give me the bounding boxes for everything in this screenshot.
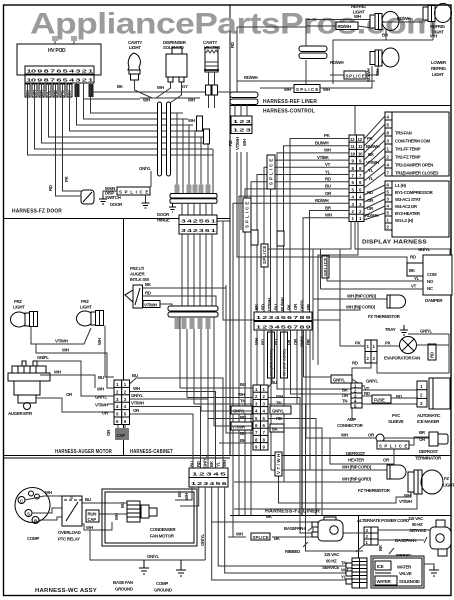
svg-text:WH: WH xyxy=(97,387,104,392)
frz light wire WH xyxy=(36,344,114,388)
refrig light 2 label xyxy=(430,24,446,35)
amp connector labels xyxy=(342,386,370,404)
splice defrost xyxy=(377,441,409,449)
control wire VT xyxy=(264,162,349,312)
auger connector left labels xyxy=(95,375,114,416)
wire drop BK to hinge bundle xyxy=(188,125,190,185)
refrig light 2 bulb xyxy=(423,4,452,23)
svg-text:1 2 3 4 5 6 7 8 9: 1 2 3 4 5 6 7 8 9 xyxy=(256,325,312,330)
wire rip cord 3 xyxy=(271,465,387,471)
svg-text:RD: RD xyxy=(145,291,151,296)
comp wires to overload xyxy=(25,490,62,520)
svg-text:COMP: COMP xyxy=(156,581,168,586)
svg-text:AUGER: AUGER xyxy=(130,272,145,277)
wire GN/YL boxed evap xyxy=(304,375,379,386)
splice vertical bus 6 xyxy=(322,256,329,278)
svg-text:COMP: COMP xyxy=(27,536,39,541)
lower refrig light bulb xyxy=(370,48,399,67)
ribbed label left xyxy=(285,542,308,554)
wire turn label BU/WH xyxy=(204,129,210,144)
wire WH to light1 xyxy=(306,14,370,20)
svg-text:WH: WH xyxy=(157,85,164,90)
svg-text:SPLICE: SPLICE xyxy=(253,535,269,540)
svg-text:AUTOMATIC: AUTOMATIC xyxy=(417,413,441,418)
svg-text:TN: TN xyxy=(240,399,245,404)
svg-text:L1 (H): L1 (H) xyxy=(395,183,406,188)
svg-text:TN: TN xyxy=(276,401,281,406)
svg-text:LIGHT: LIGHT xyxy=(432,72,444,77)
svg-text:WH: WH xyxy=(325,213,332,218)
svg-text:VT/WH: VT/WH xyxy=(95,403,108,408)
svg-text:VT/WH: VT/WH xyxy=(232,425,245,430)
svg-text:VT/BK: VT/BK xyxy=(317,155,330,160)
svg-text:VT/WH: VT/WH xyxy=(366,160,379,165)
fz thermistor capsule 1 xyxy=(387,295,406,308)
lower cable bundle bars xyxy=(168,306,218,317)
svg-text:LIGHT: LIGHT xyxy=(443,483,454,488)
frz light 2 wire WH vertical xyxy=(97,326,114,378)
svg-text:GY: GY xyxy=(182,84,188,89)
svg-text:WH: WH xyxy=(188,118,195,123)
svg-text:S: S xyxy=(27,512,30,517)
svg-text:WH (RIP CORD): WH (RIP CORD) xyxy=(346,305,376,310)
control wire BU xyxy=(245,184,349,515)
svg-text:HARNESS-FZ LINER: HARNESS-FZ LINER xyxy=(265,509,320,515)
svg-text:WH: WH xyxy=(184,493,189,500)
svg-text:WH: WH xyxy=(222,460,227,467)
defrost heater box xyxy=(330,438,394,464)
svg-text:LIGHT: LIGHT xyxy=(129,45,141,50)
svg-text:SOLENOID: SOLENOID xyxy=(399,579,420,584)
auger motor xyxy=(8,361,50,410)
svg-text:REFRIG: REFRIG xyxy=(430,24,446,29)
dual connector left wires xyxy=(180,285,253,443)
GN/YL vertical wire comp xyxy=(200,533,205,546)
ground door 2 xyxy=(142,195,150,208)
condenser fan motor xyxy=(114,501,176,539)
svg-text:1 2 3: 1 2 3 xyxy=(233,119,252,124)
power plug left xyxy=(312,517,343,541)
svg-text:115 VAC: 115 VAC xyxy=(324,552,340,557)
svg-text:BU/WH: BU/WH xyxy=(315,141,329,146)
wire long vertical dark xyxy=(301,330,303,515)
svg-text:WH: WH xyxy=(188,98,195,103)
svg-text:DAMPER: DAMPER xyxy=(425,298,443,303)
main disp switch xyxy=(81,186,121,204)
splice vertical bus 2 xyxy=(267,155,275,189)
HV POD pin 4 wire GY xyxy=(70,83,199,131)
tray ground xyxy=(385,325,449,373)
power cord wire BK xyxy=(266,514,273,519)
damper wires YL VT xyxy=(321,249,424,289)
frz light 2 bulb xyxy=(77,311,104,327)
svg-text:RD: RD xyxy=(352,361,358,366)
svg-text:BU: BU xyxy=(98,375,104,380)
svg-text:TN: TN xyxy=(342,399,347,404)
svg-text:HV POD: HV POD xyxy=(48,48,66,54)
svg-text:PTC RELAY: PTC RELAY xyxy=(58,537,80,542)
svg-text:VALVE: VALVE xyxy=(399,571,412,576)
svg-text:VT: VT xyxy=(411,284,417,289)
svg-text:90 HZ: 90 HZ xyxy=(412,522,423,527)
lower cable bundle wires down xyxy=(180,317,214,426)
svg-text:YL: YL xyxy=(368,168,374,173)
svg-text:BASEPAN-I: BASEPAN-I xyxy=(284,526,305,531)
condenser fan wires xyxy=(106,491,189,530)
door hinge connector row 2 xyxy=(179,225,217,235)
svg-text:REFRIG: REFRIG xyxy=(351,4,367,9)
auger motor wire OR xyxy=(36,392,114,412)
wire RD/WH boxed top xyxy=(306,22,372,30)
cavity light bulb xyxy=(128,53,140,80)
cavity heater wires BU/WH BU xyxy=(206,72,218,108)
wire rip cord 4 xyxy=(234,477,391,494)
defrost heater wire WH OR xyxy=(330,433,376,439)
svg-text:WH (RIP CORD): WH (RIP CORD) xyxy=(342,477,372,482)
svg-text:HARNESS-REF LINER: HARNESS-REF LINER xyxy=(263,99,317,105)
svg-text:VT/WH: VT/WH xyxy=(144,303,157,308)
svg-text:BU: BU xyxy=(132,373,138,378)
fz light wires xyxy=(234,476,417,509)
control wire BR xyxy=(310,205,350,312)
svg-text:WH: WH xyxy=(238,392,245,397)
svg-text:GN/YL: GN/YL xyxy=(366,379,379,384)
svg-text:WATER: WATER xyxy=(377,579,392,584)
door ground small xyxy=(169,202,176,212)
alternate power cord label xyxy=(357,516,426,533)
water valve box xyxy=(371,556,424,588)
wire gn/yl to grounds xyxy=(90,530,205,560)
HV POD connector row 1 pins 10-1 xyxy=(25,66,94,74)
HV POD pin 1 wire WH xyxy=(91,83,184,113)
fz door cable capsule 1 xyxy=(158,102,162,176)
lower cable bundle wire labels xyxy=(175,318,211,329)
svg-text:FZ: FZ xyxy=(444,476,449,481)
wire PK riser xyxy=(339,249,341,346)
svg-text:3 4 2 3 6 1: 3 4 2 3 6 1 xyxy=(181,228,217,233)
svg-text:TH1-FF TEMP: TH1-FF TEMP xyxy=(395,147,421,152)
svg-text:BASE FAN: BASE FAN xyxy=(113,580,133,585)
svg-text:WH (RIP CORD): WH (RIP CORD) xyxy=(347,294,377,299)
HV POD pin 3 wire BK xyxy=(77,83,194,125)
wire BK power xyxy=(212,521,318,523)
svg-text:RD: RD xyxy=(410,255,416,260)
svg-text:WH: WH xyxy=(236,532,243,537)
svg-text:WH: WH xyxy=(324,148,331,153)
svg-text:YL: YL xyxy=(414,276,420,281)
cap xyxy=(115,428,129,440)
HV POD pin wire labels vertical xyxy=(25,84,94,97)
svg-text:ICE MAKER: ICE MAKER xyxy=(417,419,440,424)
svg-text:WH: WH xyxy=(86,525,93,530)
svg-text:BU/WH: BU/WH xyxy=(280,297,285,311)
HV POD box xyxy=(17,44,101,75)
svg-text:VT/WH: VT/WH xyxy=(267,298,272,311)
svg-text:CONDENSER: CONDENSER xyxy=(150,527,176,532)
svg-text:GN/YL: GN/YL xyxy=(200,533,205,546)
pvc sleeve label xyxy=(388,413,404,424)
wire turn label WH xyxy=(188,116,203,131)
svg-text:TRAY: TRAY xyxy=(385,327,396,332)
control wire BU/WH xyxy=(284,141,350,313)
control connector diagonal wires lower xyxy=(364,185,385,220)
svg-text:FRZ LT/: FRZ LT/ xyxy=(130,266,145,271)
svg-text:VT/WH: VT/WH xyxy=(55,339,68,344)
ref liner connector labels xyxy=(228,137,247,150)
svg-text:W4-AC2 DR: W4-AC2 DR xyxy=(395,204,418,209)
svg-text:GN/YL: GN/YL xyxy=(147,554,160,559)
svg-text:SPLICE: SPLICE xyxy=(346,74,365,79)
control connector 12-pin dual xyxy=(349,135,364,222)
base fan ground xyxy=(113,560,149,592)
svg-text:RD: RD xyxy=(364,391,370,396)
svg-text:115 VAC: 115 VAC xyxy=(408,516,424,521)
section divider harness-fz liner bottom xyxy=(230,515,451,517)
splice vertical bus 3 xyxy=(251,230,258,245)
water valve connector xyxy=(346,558,367,588)
wire fz connector gap right xyxy=(312,319,340,321)
comp ground xyxy=(154,560,186,593)
cavity light wire BK xyxy=(117,80,152,98)
svg-text:1 2 3 4 5: 1 2 3 4 5 xyxy=(192,472,227,477)
svg-text:RD/WH: RD/WH xyxy=(338,24,352,29)
svg-text:W3-AC1 STAT: W3-AC1 STAT xyxy=(395,197,421,202)
svg-text:AMP: AMP xyxy=(347,417,356,422)
auger motor wire WH xyxy=(40,370,95,389)
splice vertical bus 4 xyxy=(261,244,268,267)
svg-text:GN/YL: GN/YL xyxy=(420,329,433,334)
svg-text:HEATER: HEATER xyxy=(348,458,365,463)
svg-text:BU: BU xyxy=(85,497,91,502)
damper xyxy=(407,255,452,303)
svg-text:RD: RD xyxy=(261,304,266,310)
section divider vertical center xyxy=(229,5,231,456)
svg-text:BY2-HEATER: BY2-HEATER xyxy=(395,211,421,216)
control wire YL xyxy=(257,169,349,312)
svg-text:60 HZ: 60 HZ xyxy=(326,559,337,564)
intlk sw wire RD xyxy=(143,291,217,307)
HV POD connector row 2 pins 10-1 xyxy=(25,75,94,83)
dispenser solenoid wire WH xyxy=(146,82,171,98)
frz light 2 label xyxy=(80,299,92,310)
wire vt/wh ref liner down xyxy=(240,152,242,230)
cabinet connector row 2 xyxy=(189,478,228,488)
svg-text:FZ THERMISTOR: FZ THERMISTOR xyxy=(358,488,391,493)
svg-text:RD/WH: RD/WH xyxy=(315,198,329,203)
svg-text:RD/WH: RD/WH xyxy=(244,75,258,80)
ground door 1 xyxy=(99,196,123,207)
svg-text:SWITCH: SWITCH xyxy=(105,195,121,200)
refrig light 1 label xyxy=(351,4,367,15)
svg-text:LIGHT: LIGHT xyxy=(80,305,92,310)
evaporator fan xyxy=(352,337,449,420)
svg-text:WH: WH xyxy=(133,386,140,391)
wire drop p2 to hinge bundle xyxy=(182,119,184,193)
svg-text:RD/WH: RD/WH xyxy=(365,213,379,218)
dual connector left labels xyxy=(231,382,252,443)
svg-text:WH: WH xyxy=(45,490,52,495)
HV POD pin 8 wire BK xyxy=(42,83,209,143)
svg-text:BY1-COMPRESSOR: BY1-COMPRESSOR xyxy=(395,190,434,195)
svg-text:WH (RIP CORD): WH (RIP CORD) xyxy=(342,465,372,470)
wire BR WH light drops xyxy=(333,22,437,85)
wire OR to cap xyxy=(106,425,125,437)
svg-text:SERVICE: SERVICE xyxy=(322,565,339,570)
GN/YL label door xyxy=(139,166,152,187)
wire GN/FL auger xyxy=(35,355,114,396)
defrost heater coil xyxy=(376,434,384,442)
control wire RD/WH xyxy=(233,198,349,537)
basepan-i label left xyxy=(284,526,314,531)
dispenser solenoid wire GY xyxy=(170,82,188,103)
splice vertical bus 5 xyxy=(277,231,284,246)
HV POD wire stubs top xyxy=(52,36,77,44)
svg-text:TR1(DAMPER CLOSED: TR1(DAMPER CLOSED xyxy=(395,171,438,176)
svg-text:WH: WH xyxy=(242,139,247,146)
HV POD pin 9 wire OR xyxy=(35,83,214,149)
wire drop BK8 to hinge bundle xyxy=(207,143,209,185)
svg-text:ICE: ICE xyxy=(377,564,384,569)
wire drop BU10 to hinge bundle xyxy=(212,155,214,193)
hinge bundle wire labels xyxy=(175,185,211,194)
wire RD vertical left xyxy=(230,27,306,97)
section divider harness-ref liner xyxy=(230,105,451,107)
svg-text:BU: BU xyxy=(325,184,331,189)
svg-text:CAP: CAP xyxy=(117,433,126,438)
svg-text:GROUND: GROUND xyxy=(154,588,172,593)
wire hinge to section edge xyxy=(216,220,230,222)
svg-text:FAN MOTOR: FAN MOTOR xyxy=(150,534,175,539)
svg-text:YL: YL xyxy=(368,176,374,181)
svg-text:DOOR: DOOR xyxy=(110,202,123,207)
svg-text:PVC: PVC xyxy=(392,413,401,418)
auger connector right wires xyxy=(130,378,224,468)
control wire WH2 xyxy=(303,213,349,313)
svg-text:RD: RD xyxy=(48,185,53,191)
svg-text:HARNESS-AUGER MOTOR: HARNESS-AUGER MOTOR xyxy=(55,449,112,455)
svg-text:OVERLOAD: OVERLOAD xyxy=(58,530,81,535)
svg-text:COM: COM xyxy=(427,272,437,277)
control board box 1 xyxy=(385,112,449,176)
ref liner bundle bars xyxy=(230,92,258,105)
svg-text:WH: WH xyxy=(276,394,283,399)
svg-text:BU: BU xyxy=(240,382,246,387)
splice ref 2 xyxy=(330,71,366,79)
control wire WH xyxy=(277,148,349,313)
svg-text:CAP: CAP xyxy=(88,517,97,522)
fuse xyxy=(362,390,417,404)
frz lt/auger intlk sw label xyxy=(130,266,150,282)
svg-text:GN/YL: GN/YL xyxy=(139,166,152,171)
svg-text:10 9 8 7 6 5 4 3 2 1: 10 9 8 7 6 5 4 3 2 1 xyxy=(27,78,95,83)
condenser fan box xyxy=(102,489,197,546)
svg-text:TR3-FAN: TR3-FAN xyxy=(395,131,412,136)
svg-text:RD: RD xyxy=(367,190,373,195)
splice vertical bus 1 xyxy=(243,198,251,232)
svg-text:RD: RD xyxy=(274,339,279,345)
svg-text:RD: RD xyxy=(240,415,246,420)
ribbed label right xyxy=(389,548,411,558)
fz door cable capsule 2 xyxy=(167,102,171,176)
svg-text:BU: BU xyxy=(190,461,195,467)
svg-text:3 4 2 5 6 1: 3 4 2 5 6 1 xyxy=(181,219,217,224)
cavity heater xyxy=(204,48,219,72)
svg-text:EVAPORATOR FAN: EVAPORATOR FAN xyxy=(384,356,420,361)
splice power xyxy=(228,528,313,541)
dual connector right labels xyxy=(270,380,291,432)
svg-text:DISPLAY HARNESS: DISPLAY HARNESS xyxy=(362,240,427,246)
wire RD/WH mid xyxy=(237,75,375,81)
wires below fz connector xyxy=(257,330,352,482)
splice fz door xyxy=(103,187,150,196)
HV POD right exit wires xyxy=(84,92,231,99)
svg-text:GROUND: GROUND xyxy=(115,587,133,592)
wire drop YL to hinge bundle xyxy=(200,137,202,185)
water valve wires labels xyxy=(341,561,348,580)
control wire RD xyxy=(251,177,349,516)
frz lt/auger intlk switch xyxy=(125,285,143,308)
dual connector right wires xyxy=(268,330,363,551)
wire RD/WH between lights xyxy=(382,16,423,22)
svg-text:GN/FL: GN/FL xyxy=(37,355,49,360)
intlk sw wire VT/WH xyxy=(143,301,172,308)
svg-text:LOWER: LOWER xyxy=(431,60,447,65)
wire wh ref liner down xyxy=(246,152,248,198)
control wire OR xyxy=(239,191,349,515)
svg-text:RD/WH: RD/WH xyxy=(330,60,344,65)
control wire PK xyxy=(290,133,349,312)
115 vac service label xyxy=(322,552,340,570)
svg-text:W1-L2 (H): W1-L2 (H) xyxy=(395,218,414,223)
svg-text:TH2-FZ TEMP: TH2-FZ TEMP xyxy=(395,155,421,160)
svg-text:DEFROST: DEFROST xyxy=(419,449,438,454)
frz light 1 bulb xyxy=(11,312,38,328)
svg-text:HARNESS-FZ DOOR: HARNESS-FZ DOOR xyxy=(12,209,62,215)
auger connector 6-pin dual xyxy=(114,380,130,425)
wire drop OR9 to hinge bundle xyxy=(212,149,214,193)
HV POD pin 2 wire xyxy=(84,83,189,119)
refrig light 1 bulb xyxy=(370,12,399,31)
alt power connector xyxy=(356,527,383,552)
svg-text:LIGHT: LIGHT xyxy=(13,305,25,310)
svg-text:CONNECTOR: CONNECTOR xyxy=(337,423,364,428)
frz light 1 label xyxy=(13,299,25,310)
HV POD pin 10 wire BU xyxy=(28,83,214,155)
svg-text:BU: BU xyxy=(274,304,279,310)
amp connector xyxy=(337,383,364,428)
svg-text:YL: YL xyxy=(325,169,331,174)
svg-text:VT/WH: VT/WH xyxy=(399,499,412,504)
dispenser solenoid xyxy=(166,48,187,82)
wire rip cord 1 xyxy=(268,222,387,361)
svg-text:YL: YL xyxy=(216,461,221,467)
svg-text:1 2 3 4 5 6: 1 2 3 4 5 6 xyxy=(191,481,228,486)
door hinge lower wires xyxy=(182,234,212,306)
svg-text:HARNESS-CABINET: HARNESS-CABINET xyxy=(130,449,173,455)
main disp switch labels RD PK xyxy=(48,175,69,191)
defrost terminator xyxy=(384,430,448,461)
fz light right socket xyxy=(408,470,454,494)
cabinet connector drops xyxy=(175,487,352,580)
svg-text:WH: WH xyxy=(54,370,61,375)
svg-text:FRZ: FRZ xyxy=(81,299,89,304)
ice maker connector xyxy=(417,381,427,407)
power plug right xyxy=(430,520,451,556)
svg-text:BU/WH: BU/WH xyxy=(366,144,380,149)
svg-text:GN/YL: GN/YL xyxy=(95,395,108,400)
svg-text:WH: WH xyxy=(143,98,150,103)
svg-text:HARNESS-CONTROL: HARNESS-CONTROL xyxy=(263,109,315,115)
